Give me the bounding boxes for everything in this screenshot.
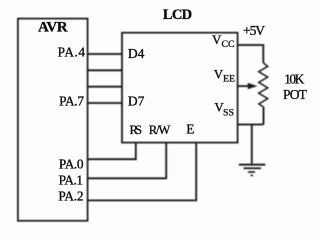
- wire VEE to pot wiper: [238, 85, 250, 87]
- svg-text:PA.1: PA.1: [59, 172, 83, 187]
- svg-text:SS: SS: [223, 108, 234, 119]
- svg-text:+5V: +5V: [243, 23, 265, 38]
- svg-text:PA.4: PA.4: [58, 44, 86, 59]
- svg-text:RS: RS: [130, 123, 143, 137]
- wire PA.5 to D5: [87, 69, 123, 71]
- svg-text:E: E: [186, 121, 194, 136]
- svg-text:LCD: LCD: [163, 7, 192, 23]
- ground symbol bar 4: [251, 175, 253, 177]
- ground symbol bar 1: [239, 164, 266, 166]
- svg-text:PA.7: PA.7: [59, 93, 84, 108]
- wire PA.7 to D7: [87, 102, 123, 104]
- wire PA.2 to E: [88, 143, 197, 201]
- potentiometer R1 zigzag body: [259, 63, 268, 107]
- wire VCC to +5V node: [238, 45, 263, 63]
- AVR microcontroller box U1: [18, 19, 88, 221]
- LCD module box: [122, 33, 238, 143]
- wire PA.0 to RS: [88, 143, 136, 160]
- svg-text:POT: POT: [283, 87, 308, 102]
- wire VSS to pot bottom: [238, 124, 263, 126]
- svg-text:D4: D4: [128, 46, 145, 61]
- svg-text:PA.0: PA.0: [59, 156, 84, 171]
- potentiometer bottom lead: [263, 107, 265, 125]
- pot wiper arrowhead: [248, 83, 258, 89]
- svg-text:AVR: AVR: [38, 20, 68, 36]
- ground symbol bar 2: [244, 167, 262, 169]
- svg-text:EE: EE: [223, 74, 235, 85]
- svg-text:PA.2: PA.2: [58, 189, 83, 204]
- svg-text:R/W: R/W: [149, 123, 171, 137]
- ground stem wire: [251, 125, 253, 165]
- ground symbol bar 3: [248, 171, 255, 173]
- wire PA.6 to D6: [87, 86, 123, 88]
- svg-text:V: V: [212, 32, 222, 47]
- svg-text:10K: 10K: [284, 72, 304, 87]
- svg-text:CC: CC: [222, 39, 235, 50]
- svg-text:D7: D7: [128, 94, 145, 109]
- wire PA.4 to D4: [87, 53, 123, 55]
- wire PA.1 to R/W: [88, 143, 167, 179]
